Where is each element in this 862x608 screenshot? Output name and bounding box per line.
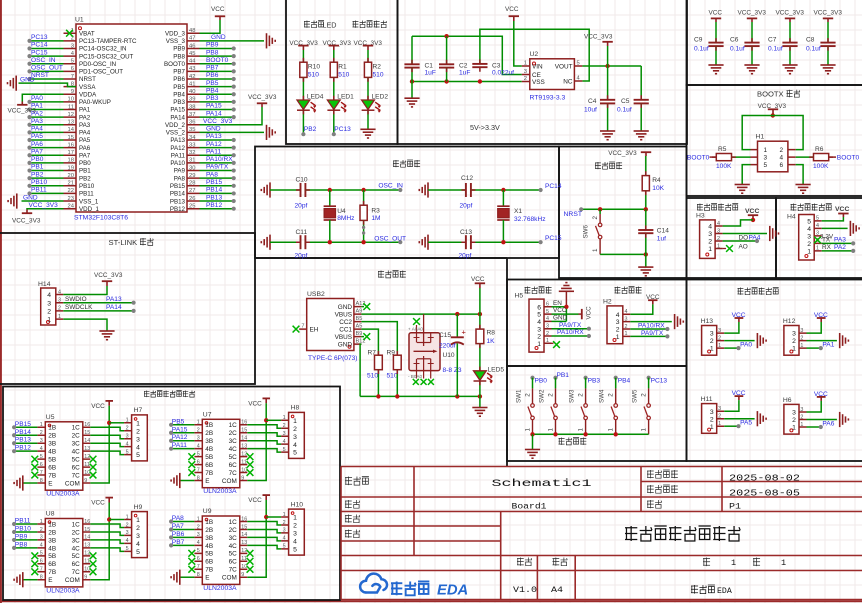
svg-text:9: 9 [241,572,244,578]
svg-text:6: 6 [40,559,43,565]
header H2 body [607,306,623,344]
svg-text:100K: 100K [716,163,732,170]
svg-text:VDD_3: VDD_3 [165,30,186,37]
no-connect X on USB2 A12 [361,306,364,308]
wire H4 pin5 to VCC [822,217,844,221]
svg-text:14: 14 [84,535,90,541]
junction R8 rail [478,394,482,398]
svg-text:PA11: PA11 [206,148,221,155]
wire SW5 to rail [648,420,650,435]
title block company jialichuang EDA [691,585,698,594]
header H9 body [132,512,148,558]
svg-text:USB2: USB2 [307,291,325,298]
svg-text:2: 2 [47,309,51,316]
wire C7 to ground [789,46,791,65]
svg-text:28: 28 [189,181,195,187]
svg-text:1: 1 [283,512,286,518]
header H6 body [784,404,799,434]
svg-text:PA9: PA9 [174,168,186,175]
ground below C9 [708,64,723,66]
svg-text:3: 3 [764,155,768,162]
svg-text:17: 17 [68,150,74,156]
switch SW4 [615,378,617,389]
junction X1 top [501,188,505,192]
svg-text:6: 6 [71,66,74,72]
svg-text:GND: GND [23,194,38,201]
junction R9 rail [395,394,399,398]
wire H14 pin2 SWDCLK to PA14 [63,310,133,312]
svg-text:2: 2 [779,147,783,154]
wire VBUS A9 to VCC rail [361,313,480,315]
svg-text:1: 1 [58,314,61,320]
wire R2 to LED2 [367,77,369,100]
svg-text:PA9/TX: PA9/TX [206,164,229,171]
power flag VCC_3V3 below U1 [26,210,28,214]
wire net PA4 to U1 pin 14 [30,131,64,133]
wire net PA1 to U1 pin 11 [30,109,64,111]
wire to C6 [751,22,753,43]
svg-text:1: 1 [717,243,720,249]
wire bottom rail C1 C2 C3 VSS [412,81,522,83]
section box reset circuit [559,147,687,279]
svg-text:PB12: PB12 [15,445,31,452]
ground at U1 VSSA [15,76,17,91]
svg-text:7: 7 [197,564,200,570]
wire H4 pin2 TX to PA3 [822,242,854,244]
svg-text:C6: C6 [730,37,739,44]
wire LED4 cathode to PB2 [302,111,304,135]
led LED1 [327,100,340,110]
svg-text:COM: COM [222,575,237,582]
svg-text:VCC_3V3: VCC_3V3 [776,10,805,17]
svg-text:PB9: PB9 [206,42,219,49]
svg-text:VSS_1: VSS_1 [79,198,99,205]
wire NRST row [581,208,646,210]
svg-text:PA3: PA3 [31,118,43,125]
svg-text:4: 4 [283,439,286,445]
svg-text:0.1uf: 0.1uf [806,46,821,53]
svg-text:1: 1 [547,428,554,432]
svg-text:0.1uf: 0.1uf [768,46,783,53]
svg-text:VBAT: VBAT [79,30,95,37]
wire net PC14 to U1 pin 3 [30,47,64,49]
svg-text:10: 10 [84,567,90,573]
svg-text:SW2: SW2 [538,389,545,403]
wire H12 pin3 to VCC [807,322,822,333]
svg-text:PC14: PC14 [31,42,48,49]
svg-text:15: 15 [241,428,247,434]
svg-text:26: 26 [189,196,195,202]
svg-text:2: 2 [283,520,286,526]
wire R8 to LED5 [479,344,481,371]
svg-text:6C: 6C [229,462,238,469]
resistor R4 [642,176,649,191]
svg-text:VBUS: VBUS [335,311,352,318]
svg-text:14: 14 [241,436,247,442]
wire H2 pin4 to VCC [630,304,653,314]
svg-text:1: 1 [781,558,786,568]
svg-text:RT9193-3.3: RT9193-3.3 [530,95,566,102]
ground key circuit [525,449,540,451]
svg-text:PB9: PB9 [15,533,28,540]
svg-text:21: 21 [68,181,74,187]
wire to C8 [827,22,829,43]
wire H2 pin1 to PA9/TX [630,335,667,337]
svg-text:PA1: PA1 [79,107,91,114]
svg-text:PA1: PA1 [822,342,834,349]
svg-text:2B: 2B [205,430,213,437]
H9 pin stubs and numbers [124,520,132,552]
ground below C5 [634,130,649,132]
wire H5 VCC pin5 to VCC flag [552,313,579,315]
svg-text:PA15: PA15 [172,426,188,433]
svg-text:PA5: PA5 [31,133,43,140]
svg-text:3: 3 [717,228,720,234]
sideways ground H13 [756,333,758,348]
svg-text:20pf: 20pf [295,253,308,260]
svg-text:1uF: 1uF [459,70,470,77]
svg-text:ULN2003A: ULN2003A [46,491,80,498]
svg-text:PB7: PB7 [206,65,219,72]
svg-text:15: 15 [84,527,90,533]
svg-text:4: 4 [197,540,200,546]
svg-text:PB15: PB15 [15,421,31,428]
svg-text:4B: 4B [205,543,213,550]
svg-text:10: 10 [241,564,247,570]
wire net PA9/TX to U1 pin 30 [200,170,234,172]
svg-text:12: 12 [241,451,247,457]
svg-text:PB13: PB13 [15,437,31,444]
ground left of C10 [269,182,271,197]
svg-text:2: 2 [547,393,554,397]
svg-text:5: 5 [40,551,43,557]
svg-text:3B: 3B [48,441,56,448]
svg-text:46: 46 [189,43,195,49]
svg-text:5C: 5C [72,457,81,464]
svg-text:220uf: 220uf [439,343,456,350]
wire LED5 to rail and ground [479,382,481,408]
svg-text:R10: R10 [308,64,320,71]
svg-text:1: 1 [608,428,615,432]
U7 pin stubs [194,425,247,481]
svg-text:4: 4 [293,442,297,449]
svg-text:VSS_2: VSS_2 [166,130,186,137]
svg-text:LED4: LED4 [307,94,324,101]
svg-text:C1: C1 [425,63,434,70]
switch SW3 [585,378,587,389]
section title serial circuit [615,287,621,294]
resistor R6 [814,154,829,161]
svg-text:PB1: PB1 [79,168,91,175]
svg-text:C11: C11 [296,229,308,236]
svg-text:1C: 1C [72,425,81,432]
svg-text:13: 13 [241,540,247,546]
section title IR detect module [738,288,744,295]
svg-text:32: 32 [189,150,195,156]
wire H11 pin1 to PA5 [724,425,738,427]
crystal U4 [329,190,331,206]
svg-text:7B: 7B [48,472,56,479]
ground below C8 [820,64,835,66]
svg-text:PB13: PB13 [206,194,222,201]
section box power supply circuit [255,257,507,259]
section box bluetooth serial [507,280,687,367]
svg-text:VCC_3V3: VCC_3V3 [814,10,843,17]
H10 pin stubs and numbers [281,517,289,549]
svg-text:5: 5 [40,454,43,460]
wire U1 pin36 to VCC_3V3 flag [200,107,263,125]
svg-text:1C: 1C [229,519,238,526]
power flag VCC_3V3 right of U1 [261,104,263,108]
svg-text:VCC: VCC [248,497,262,504]
svg-text:2: 2 [592,216,599,220]
wire H2 pin3 to ground [630,321,672,323]
svg-text:1: 1 [293,418,297,425]
capacitor C3 [472,63,487,65]
wire ground to C10 [270,189,301,191]
wire H4 pin1 RX to PA2 [822,250,854,252]
svg-text:PD1-OSC_OUT: PD1-OSC_OUT [79,69,123,76]
wire VDDA pin9 to VCC_3V3 flag [22,94,63,101]
switch SW5 [648,378,650,389]
svg-text:1: 1 [546,338,549,344]
svg-text:VCC: VCC [505,6,519,13]
svg-text:EDA: EDA [717,587,732,596]
ground below C14 [638,266,653,268]
svg-text:H2: H2 [603,299,612,306]
wire net PC15 to U1 pin 4 [30,55,64,57]
wire R7 to rail [377,370,379,397]
svg-text:1C: 1C [72,521,81,528]
svg-text:5: 5 [293,546,297,553]
svg-text:VIN: VIN [532,64,543,71]
bottom ground rail [360,395,480,397]
U10 centre pin to VBUS [423,314,425,346]
svg-text:R9: R9 [387,350,396,357]
svg-text:R8: R8 [487,330,496,337]
svg-text:3: 3 [524,69,527,75]
svg-text:PB12: PB12 [170,206,186,213]
test dots below R3 [362,226,365,229]
svg-text:VCC_3V3: VCC_3V3 [738,10,767,17]
svg-text:PB2: PB2 [304,126,317,133]
svg-text:3: 3 [136,533,140,540]
section title ke-tiao-liang LED [304,21,310,28]
svg-text:PB14: PB14 [170,191,186,198]
wire LED1 cathode to PC13 [333,111,335,135]
wire net PB5 to U1 pin 41 [200,86,234,88]
junction R4 C14 [644,207,648,211]
svg-text:C7: C7 [768,37,777,44]
ground left of C13 [427,235,429,250]
svg-text:AO: AO [739,243,748,250]
svg-text:PA6: PA6 [79,145,91,152]
wire VCC to H8 pin1 and COM [247,403,266,480]
svg-text:2025-08-05: 2025-08-05 [729,489,800,499]
svg-text:15: 15 [68,135,74,141]
driver U7 body [202,419,240,487]
svg-text:510: 510 [387,373,398,380]
switch SW1 [532,378,534,389]
svg-text:PB11: PB11 [15,518,31,525]
svg-text:13: 13 [68,120,74,126]
sideways ground voice [849,221,851,236]
resistor R9 [393,355,401,370]
svg-text:STM32F103C8T6: STM32F103C8T6 [74,215,128,222]
section box power regulator [398,0,688,144]
wire VCC to H7 pin1 and COM [90,406,109,483]
svg-text:ULN2003A: ULN2003A [203,585,237,592]
svg-text:2: 2 [524,76,527,82]
wire net PC13 to U1 pin 2 [30,40,64,42]
svg-text:PA0: PA0 [31,95,43,102]
svg-text:OSC_IN: OSC_IN [31,57,56,64]
svg-text:7C: 7C [229,567,238,574]
svg-text:22: 22 [68,188,74,194]
power flag VCC_3V3 at VOUT [607,46,609,66]
title block label create-date [647,470,654,478]
svg-text:3C: 3C [229,438,238,445]
svg-text:2C: 2C [72,529,81,536]
svg-text:510: 510 [308,72,319,79]
header H13 body [702,326,717,356]
ground at U1 VSS_1 [16,193,18,208]
svg-text:PD0-OSC_IN: PD0-OSC_IN [79,61,116,68]
svg-text:11: 11 [241,459,247,465]
svg-text:3: 3 [283,431,286,437]
svg-text:33: 33 [189,142,195,148]
svg-text:PB3: PB3 [206,95,219,102]
svg-text:PA3: PA3 [834,237,846,244]
driver U5 body [45,422,83,490]
svg-text:3: 3 [616,319,620,326]
svg-text:100K: 100K [813,163,829,170]
svg-text:GND: GND [338,304,353,311]
capacitor C5 [640,66,642,100]
svg-text:1: 1 [524,428,531,432]
svg-text:5B: 5B [48,553,56,560]
svg-text:NC: NC [563,79,573,86]
svg-text:7: 7 [197,467,200,473]
svg-text:9: 9 [71,89,74,95]
svg-text:4: 4 [779,155,783,162]
capacitor C13 [465,235,467,249]
svg-text:6B: 6B [205,559,213,566]
svg-text:BOOT0: BOOT0 [837,154,860,161]
wire C13 to PC15 [471,241,541,243]
svg-text:2B: 2B [48,433,56,440]
svg-text:C2: C2 [459,63,468,70]
svg-text:4: 4 [616,312,620,319]
svg-text:Schematic1: Schematic1 [492,478,592,490]
svg-text:PC13-TAMPER-RTC: PC13-TAMPER-RTC [79,38,137,45]
svg-text:6: 6 [779,162,783,169]
svg-text:1: 1 [731,558,736,568]
svg-text:8-8 Z3: 8-8 Z3 [443,367,462,374]
svg-text:3: 3 [126,434,129,440]
junction H5 EN [564,305,568,309]
svg-text:38: 38 [189,104,195,110]
ground H1 pin5 [735,184,750,186]
resistor R3 [363,190,365,205]
resistor R8 [479,314,481,329]
svg-text:PA7: PA7 [31,148,43,155]
svg-text:1uF: 1uF [425,70,436,77]
svg-text:PB6: PB6 [173,76,185,83]
sideways ground H12 [839,333,841,348]
section title key circuit [559,438,565,445]
svg-text:U9: U9 [203,508,212,515]
wires U8 outputs to H9 [90,524,124,527]
svg-text:OSC_IN: OSC_IN [378,183,403,190]
svg-text:BOOT0: BOOT0 [164,61,186,68]
no-connect X on U1 pin 1 [66,30,73,37]
svg-text:7C: 7C [72,472,81,479]
capacitor C6 [744,42,759,44]
svg-text:U2: U2 [530,51,539,58]
svg-text:39: 39 [189,97,195,103]
svg-text:5C: 5C [229,454,238,461]
svg-text:5C: 5C [229,551,238,558]
svg-text:5: 5 [71,59,74,65]
svg-text:3C: 3C [72,537,81,544]
svg-text:6: 6 [197,459,200,465]
svg-text:PB2: PB2 [79,175,91,182]
svg-text:20: 20 [68,173,74,179]
svg-text:A9: A9 [356,309,363,315]
wire H14 pin3 SWDIO to PA13 [63,302,133,304]
svg-text:12: 12 [84,454,90,460]
junction key rail [530,432,534,436]
svg-text:C8: C8 [806,37,815,44]
capacitor C4 [607,66,609,100]
svg-text:7: 7 [71,74,74,80]
junction C14 bottom [644,252,648,256]
svg-text:H6: H6 [783,397,792,404]
svg-text:25: 25 [189,203,195,209]
svg-text:VCC_3V3: VCC_3V3 [608,150,637,157]
resistor R5 [716,154,731,161]
title block label update-date [647,485,654,493]
svg-text:VCC_3V3: VCC_3V3 [584,34,613,41]
svg-text:2: 2 [136,428,140,435]
svg-text:11: 11 [68,104,74,110]
resistor R7 [375,355,383,370]
svg-text:4: 4 [537,319,541,326]
svg-text:4: 4 [136,444,140,451]
svg-text:1: 1 [764,147,768,154]
wire R5 to H1 pin3 [732,156,751,158]
svg-text:C12: C12 [461,175,473,182]
svg-text:8MHz: 8MHz [337,215,354,222]
svg-text:5B: 5B [205,551,213,558]
wire H12 pin1 to PA1 [807,347,821,349]
wire net PB13 to U1 pin 26 [200,200,234,202]
svg-text:5: 5 [537,312,541,319]
svg-text:LED1: LED1 [337,94,354,101]
wire SW4 to rail [615,420,617,435]
svg-text:9: 9 [84,478,87,484]
header H8 body [289,412,305,458]
svg-text:23: 23 [68,196,74,202]
section box capacitor bank [687,0,862,85]
svg-text:15: 15 [84,430,90,436]
wire H11 pin2 to ground [724,418,754,420]
svg-text:VCC_3V3: VCC_3V3 [203,118,233,125]
junction key rail [583,432,587,436]
svg-text:E: E [205,478,209,485]
svg-text:4: 4 [40,446,43,452]
